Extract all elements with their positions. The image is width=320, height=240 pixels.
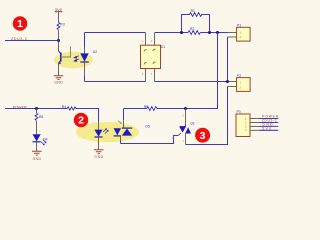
pin 2 of P2 xyxy=(228,86,237,88)
junction xyxy=(57,39,60,42)
power port 5V0 xyxy=(55,8,62,23)
svg-text:2: 2 xyxy=(78,115,84,127)
wire loop bottom (LED to D1 pin3) xyxy=(85,81,146,83)
wire net ZDU3-C at P3 xyxy=(260,122,279,124)
pin 2 of D1 xyxy=(154,33,156,45)
svg-text:R3: R3 xyxy=(60,22,64,26)
pin 3 of D1 xyxy=(145,69,147,82)
svg-text:U2: U2 xyxy=(93,50,97,54)
red callout 2 xyxy=(74,113,89,128)
pin 4 of D1 xyxy=(154,69,156,82)
resistor R3 xyxy=(57,22,65,29)
junction at vertical to triac xyxy=(216,31,219,34)
pin 1 of P1 xyxy=(228,32,236,34)
resistor R6 xyxy=(35,109,43,135)
ground GND (under phototransistor) xyxy=(54,76,64,85)
resistor R4 xyxy=(62,105,76,110)
svg-text:GND: GND xyxy=(54,80,63,84)
pin 1 of P3 xyxy=(250,118,260,120)
svg-text:P3: P3 xyxy=(237,110,241,114)
ground GND (under D4) xyxy=(32,151,42,161)
wire loop top (LED to D1 pin1) xyxy=(85,32,146,34)
wire net GND at P3 xyxy=(260,125,279,127)
junction at triac anode xyxy=(184,107,187,110)
svg-text:R2: R2 xyxy=(190,27,194,31)
svg-text:P1: P1 xyxy=(237,24,241,28)
red callout 1 xyxy=(13,16,28,31)
svg-text:1: 1 xyxy=(17,18,23,30)
wire R5 to phototriac top xyxy=(124,108,147,110)
svg-text:5V0: 5V0 xyxy=(262,126,271,130)
wire ZDU3-C xyxy=(5,40,59,42)
svg-text:Q1: Q1 xyxy=(190,122,195,126)
svg-text:P2: P2 xyxy=(237,74,241,78)
base lead of phototransistor xyxy=(61,46,71,57)
wire R2 to P1 xyxy=(200,32,228,34)
wire P1 pin2 down xyxy=(227,37,229,82)
junction POWER branch xyxy=(35,107,38,110)
triac Q1 xyxy=(180,109,195,145)
wire R3 to junction xyxy=(58,30,60,40)
svg-text:GND: GND xyxy=(94,155,103,159)
pin 4 of P3 xyxy=(250,129,260,131)
svg-text:R1: R1 xyxy=(191,9,195,13)
connector P2 xyxy=(237,74,251,91)
connector P3 xyxy=(236,110,250,136)
pin 2 of P1 xyxy=(228,36,237,38)
pin 2 of P3 xyxy=(250,122,260,124)
LED D2 of opto-triac xyxy=(94,122,108,150)
pin 3 of P3 xyxy=(250,125,260,127)
wire triac anode to R5 xyxy=(157,108,186,110)
pin 1 of P2 xyxy=(228,81,236,83)
svg-text:D5: D5 xyxy=(145,125,149,129)
svg-text:R4: R4 xyxy=(62,105,66,109)
gate wire phototriac to triac xyxy=(121,136,179,144)
wire P2 pin2 down to triac cathode xyxy=(186,87,228,145)
wire net POWER at P3 xyxy=(260,118,279,120)
LED of optocoupler U2 xyxy=(80,33,88,82)
junction at P2 pin1 xyxy=(226,80,229,83)
pin 1 of D1 xyxy=(145,33,147,45)
wire R4 to D2 xyxy=(76,109,99,123)
svg-text:3: 3 xyxy=(200,130,206,142)
svg-text:D4: D4 xyxy=(43,137,47,141)
svg-text:R6: R6 xyxy=(39,115,43,119)
phototransistor Q of U2 xyxy=(58,41,61,76)
wire POWER xyxy=(5,108,67,110)
wire D1 pin2 to R2 xyxy=(155,32,189,34)
junction R1 left xyxy=(180,31,183,34)
red callout 3 xyxy=(195,128,210,143)
highlight ellipse around opto-triac LEDs xyxy=(76,122,139,142)
resistor R1 loop xyxy=(182,9,210,32)
junction R1 right xyxy=(208,31,211,34)
bridge rectifier D1 xyxy=(141,45,166,68)
wire net 5V0 at P3 xyxy=(260,129,279,131)
highlight ellipse around optocoupler U2 xyxy=(54,52,93,68)
resistor R2 xyxy=(188,27,200,34)
vertical wire from R2 net down to triac anode xyxy=(186,33,218,109)
connector P1 xyxy=(237,24,251,41)
phototriac D5 of opto-triac xyxy=(114,109,150,144)
svg-text:D1: D1 xyxy=(161,45,165,49)
wire D1 pin4 to P2 pin1 xyxy=(155,81,229,83)
light arrows of optocoupler xyxy=(74,56,79,62)
ground GND (under D2) xyxy=(94,150,104,159)
svg-text:GND: GND xyxy=(33,157,42,161)
LED D4 xyxy=(33,134,48,151)
resistor R5 xyxy=(144,105,157,110)
